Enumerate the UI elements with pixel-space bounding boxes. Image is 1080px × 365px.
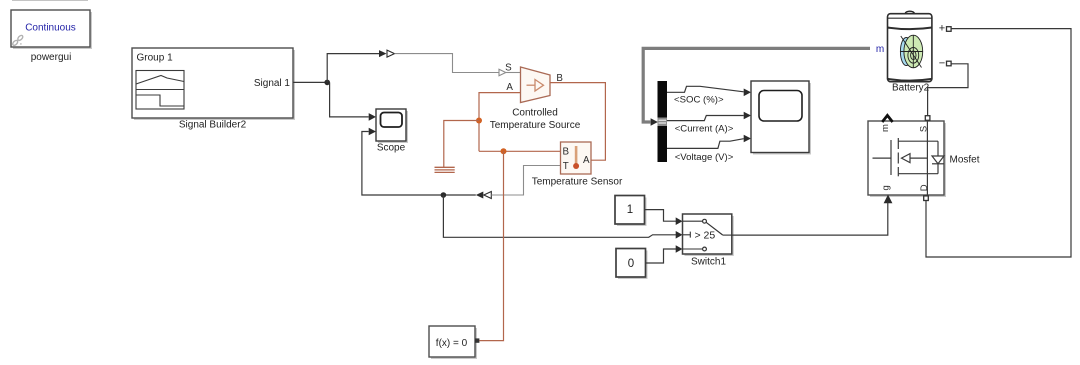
- converter arrow hollow (physical side): [387, 50, 395, 57]
- wire: Battery - to Mosfet S: [928, 64, 968, 116]
- Constant 1 block: [615, 196, 647, 227]
- Battery m port label: [876, 44, 884, 55]
- <Voltage (V)> label: [675, 152, 734, 163]
- svg-text:T: T: [563, 161, 569, 172]
- svg-text:Continuous: Continuous: [25, 23, 76, 34]
- Battery + label: [939, 23, 945, 35]
- Mosfet S port square: [925, 116, 930, 121]
- Controlled Temperature Source label: [490, 107, 581, 131]
- Mosfet label: [950, 154, 980, 165]
- Mosfet port label S: [919, 126, 930, 132]
- powergui broken-link icon: [12, 35, 24, 47]
- svg-text:Mosfet: Mosfet: [950, 154, 980, 165]
- sensor port label T: [563, 161, 569, 172]
- Mosfet m output arrow: [882, 115, 892, 122]
- svg-text:> 25: > 25: [695, 229, 716, 241]
- Controlled Temperature Source U1: [521, 67, 551, 103]
- cut-off block fragment at top edge: [12, 0, 88, 2]
- wire: Constant 1 to Switch1 input 1: [645, 210, 677, 222]
- wire: temperature feedback to Scope input 2: [362, 132, 476, 196]
- Scope label: [377, 142, 406, 153]
- svg-text:<Current (A)>: <Current (A)>: [675, 123, 734, 134]
- svg-text:Scope: Scope: [377, 142, 406, 153]
- wire: B port to sensor A loop: [550, 83, 605, 161]
- <Current (A)> label: [675, 123, 734, 134]
- sensor port label A: [583, 155, 590, 166]
- Switch1 block: [683, 214, 734, 256]
- Scope block: [376, 109, 408, 143]
- junction thermal node A: [476, 118, 482, 124]
- Mosfet g input arrow: [884, 196, 891, 203]
- Signal Builder2 "Signal 1" output label: [254, 78, 291, 89]
- Signal Builder2 plot icon: [136, 71, 184, 110]
- Mosfet icon: [873, 121, 945, 195]
- Switch1 control input arrow: [676, 231, 683, 239]
- converter arrow filled (Simulink side): [379, 50, 387, 57]
- converter arrow filled pointing left: [476, 192, 484, 199]
- svg-text:S: S: [505, 63, 512, 74]
- junction on signal line: [324, 80, 330, 86]
- Scope input 2 arrow: [369, 128, 376, 136]
- svg-text:Temperature Source: Temperature Source: [490, 120, 581, 131]
- Battery2 logo: [900, 35, 922, 68]
- Bus Selector input arrow: [651, 118, 658, 125]
- port label S: [505, 63, 512, 74]
- Scope input 1 arrow: [369, 113, 376, 121]
- junction to solver: [501, 148, 507, 154]
- svg-text:f(x) = 0: f(x) = 0: [436, 338, 468, 349]
- svg-text:<Voltage (V)>: <Voltage (V)>: [675, 152, 734, 163]
- port label A: [506, 82, 513, 93]
- Switch1 input 1 arrow: [676, 217, 683, 225]
- wire: A port to thermal node: [479, 93, 521, 152]
- Battery + port square: [947, 27, 952, 32]
- wire: bus out 2 to scope: [667, 116, 744, 121]
- powergui block: [11, 10, 92, 49]
- wire: physical signal from T port: [491, 166, 560, 196]
- svg-text:0: 0: [628, 258, 634, 270]
- svg-text:S: S: [919, 126, 930, 132]
- Mosfet D port square: [924, 196, 929, 201]
- Battery - port square: [947, 61, 952, 66]
- wire: junction up to converter: [327, 54, 379, 83]
- Mosfet port label D: [919, 184, 930, 191]
- powergui label: [31, 52, 72, 63]
- Mosfet block: [868, 121, 946, 197]
- junction on feedback line: [441, 192, 447, 198]
- svg-text:D: D: [919, 184, 930, 191]
- svg-text:A: A: [506, 82, 513, 93]
- thermal ground: [435, 167, 455, 172]
- Battery2 block: [888, 11, 932, 82]
- Mosfet port label m: [880, 124, 891, 132]
- wire: Battery + to Mosfet D: [926, 29, 1071, 257]
- Bus Selector: [658, 81, 668, 162]
- wire: Switch1 output to Mosfet g: [732, 203, 888, 236]
- scope2 input 3 arrow: [744, 135, 751, 143]
- svg-text:B: B: [563, 147, 570, 158]
- port label B: [556, 73, 563, 84]
- Solver Configuration f(x)=0: [429, 326, 479, 359]
- svg-text:1: 1: [627, 204, 633, 216]
- svg-text:Battery2: Battery2: [892, 83, 930, 94]
- svg-text:g: g: [881, 185, 892, 190]
- Temperature Sensor block: [561, 142, 592, 174]
- wire: bus out 3 to scope: [667, 139, 744, 149]
- svg-text:A: A: [583, 155, 590, 166]
- svg-text:m: m: [880, 124, 891, 132]
- svg-text:Group 1: Group 1: [137, 52, 174, 63]
- wire: physical signal to S port: [395, 54, 500, 73]
- Battery - label: [939, 58, 945, 70]
- svg-text:Signal Builder2: Signal Builder2: [179, 119, 247, 130]
- Battery2 label: [892, 83, 930, 94]
- svg-text:−: −: [939, 58, 945, 70]
- wire: Signal Builder2 output to junction: [293, 81, 330, 83]
- svg-text:m: m: [876, 44, 884, 55]
- wire: node to thermal ground: [444, 121, 479, 168]
- svg-text:Signal 1: Signal 1: [254, 78, 291, 89]
- wire: thermal node to Temperature Sensor B: [479, 150, 561, 152]
- Mosfet port label g: [881, 185, 892, 190]
- Switch1 input 3 arrow: [676, 245, 683, 253]
- wire: Constant 0 to Switch1 input 3: [646, 249, 677, 263]
- bus wire from Battery m port: [643, 48, 870, 122]
- Signal Builder2 block: [132, 48, 295, 120]
- Scope2 block: [751, 81, 811, 155]
- svg-text:<SOC (%)>: <SOC (%)>: [674, 95, 724, 106]
- wire: solver to thermal network: [479, 151, 503, 340]
- Signal Builder2 label: [179, 119, 247, 130]
- svg-text:Temperature Sensor: Temperature Sensor: [532, 177, 623, 188]
- svg-text:Switch1: Switch1: [691, 256, 726, 267]
- svg-text:Controlled: Controlled: [512, 107, 558, 118]
- svg-text:powergui: powergui: [31, 52, 72, 63]
- sensor port label B: [563, 147, 570, 158]
- converter arrow hollow pointing left: [484, 192, 492, 199]
- Switch1 label: [691, 256, 726, 267]
- Temperature Sensor label: [532, 177, 623, 188]
- scope2 input 2 arrow: [744, 112, 751, 120]
- Constant 0 block: [616, 249, 648, 280]
- S port hollow arrow: [499, 69, 521, 76]
- wire: feedback junction to Switch1 control input: [443, 195, 676, 237]
- scope2 input 1 arrow: [744, 89, 751, 97]
- wire: bus out 1 to scope: [667, 86, 744, 92]
- <SOC (%)> label: [674, 95, 724, 106]
- svg-text:+: +: [939, 23, 945, 35]
- wire: junction down to Scope input 1: [330, 82, 369, 117]
